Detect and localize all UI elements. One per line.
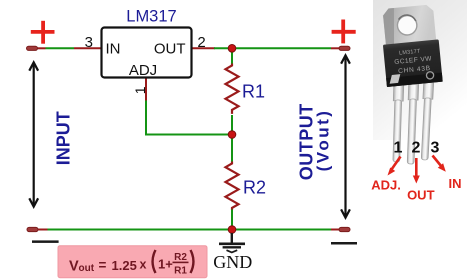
svg-text:x: x (140, 257, 147, 271)
body marking CHN 43B (398, 65, 431, 75)
wire: R2 to bottom rail (231, 210, 233, 230)
svg-text:IN: IN (106, 40, 121, 57)
ground (219, 233, 245, 252)
minus symbol (input, bottom left) (32, 240, 59, 243)
node A (junction dot top) (228, 45, 236, 53)
resistor R2 (226, 162, 239, 210)
svg-text:1: 1 (394, 140, 403, 157)
svg-text:1.25: 1.25 (112, 258, 137, 273)
node C (junction dot bottom / ground node) (228, 226, 236, 234)
svg-text:IN: IN (449, 176, 462, 191)
svg-text:out: out (79, 263, 95, 274)
svg-text:2: 2 (197, 34, 205, 51)
svg-text:OUT: OUT (154, 40, 186, 57)
TO-220 package photo background (373, 0, 467, 140)
plus symbol (input) (31, 21, 55, 44)
svg-text:INPUT: INPUT (54, 111, 74, 165)
svg-text:(Vout): (Vout) (314, 109, 333, 172)
ST logo (389, 74, 401, 84)
output terminal (top right) (339, 46, 350, 50)
wire: OUT pin to output terminal (top right) (192, 47, 341, 49)
TO-220 plastic body (383, 39, 443, 87)
formula Vout = 1.25 x (1 + R2/R1) (69, 250, 193, 277)
resistor R1 (226, 64, 239, 114)
bottom right terminal (339, 227, 350, 231)
op-amp U1: LM317 regulator box (102, 28, 192, 78)
wire: bottom rail (37, 229, 340, 231)
svg-text:OUT: OUT (407, 188, 435, 203)
wire: R1 to node B (231, 115, 233, 135)
svg-text:1+: 1+ (158, 256, 173, 271)
tab hole (397, 15, 418, 36)
svg-text:GND: GND (213, 252, 252, 272)
arrow pin3 to IN (433, 156, 446, 172)
formula box (58, 246, 207, 278)
input span arrow (double headed) (29, 62, 38, 206)
svg-text:R1: R1 (242, 82, 265, 102)
wire: input terminal to IN pin (top left) (36, 47, 102, 49)
svg-text:LM317: LM317 (126, 8, 176, 26)
body marking GC1EF VW (394, 55, 433, 66)
svg-text:V: V (69, 258, 79, 274)
svg-text:3: 3 (85, 34, 93, 51)
svg-text:3: 3 (431, 140, 440, 157)
TO-220 leg 2 (406, 79, 419, 164)
minus symbol (output, bottom right) (331, 242, 357, 245)
arrow pin2 to OUT (413, 158, 420, 184)
plus symbol (output) (332, 20, 356, 44)
svg-text:=: = (99, 257, 107, 272)
svg-text:R2: R2 (174, 252, 187, 263)
node B (junction dot middle) (228, 131, 236, 139)
svg-text:R2: R2 (243, 178, 266, 198)
date stamp circle (426, 71, 434, 79)
TO-220 leg 3 (420, 78, 434, 160)
svg-text:2: 2 (412, 140, 421, 157)
svg-text:1: 1 (132, 86, 148, 94)
svg-text:R1: R1 (174, 266, 187, 277)
wire: node A down to R1 (231, 48, 233, 64)
input terminal (top left) (27, 46, 38, 50)
body marking LM317T (399, 49, 421, 57)
bottom left terminal (27, 227, 38, 231)
svg-text:ADJ: ADJ (129, 62, 157, 79)
TO-220 leg 1 (391, 80, 404, 162)
svg-text:ADJ.: ADJ. (371, 178, 401, 193)
TO-220 metal tab (379, 4, 442, 87)
wire: ADJ pin down and across to node B (146, 78, 229, 135)
arrow pin1 to ADJ (388, 157, 401, 176)
output span arrow (double headed) (341, 55, 350, 217)
wire: node B down to R2 (231, 135, 233, 163)
